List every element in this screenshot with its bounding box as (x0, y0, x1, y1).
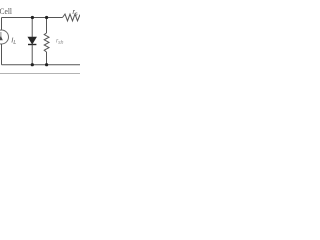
diode D (28, 37, 36, 44)
wire shunt branch lower (46, 52, 48, 65)
wire shunt branch upper (46, 18, 48, 34)
current source I_L (0, 30, 9, 44)
gray rule (0, 73, 80, 75)
resistor r_sh (shunt) (44, 33, 49, 52)
wire left lower (1, 44, 3, 65)
node diode-top (31, 16, 34, 19)
wire left upper (1, 18, 3, 31)
resistor r_s (series, cut off at right edge) (63, 14, 81, 21)
wire top (2, 17, 63, 19)
node shunt-bottom (45, 63, 48, 66)
svg-text:Cell: Cell (0, 6, 12, 16)
svg-text:IL: IL (11, 36, 16, 47)
node shunt-top (45, 16, 48, 19)
svg-text:rs: rs (73, 9, 78, 18)
wire diode branch lower (31, 45, 33, 65)
wire bottom (2, 64, 81, 66)
arrow in current source (0, 32, 2, 40)
node diode-bottom (31, 63, 34, 66)
svg-text:rsh: rsh (56, 38, 64, 47)
wire diode branch upper (31, 18, 33, 38)
